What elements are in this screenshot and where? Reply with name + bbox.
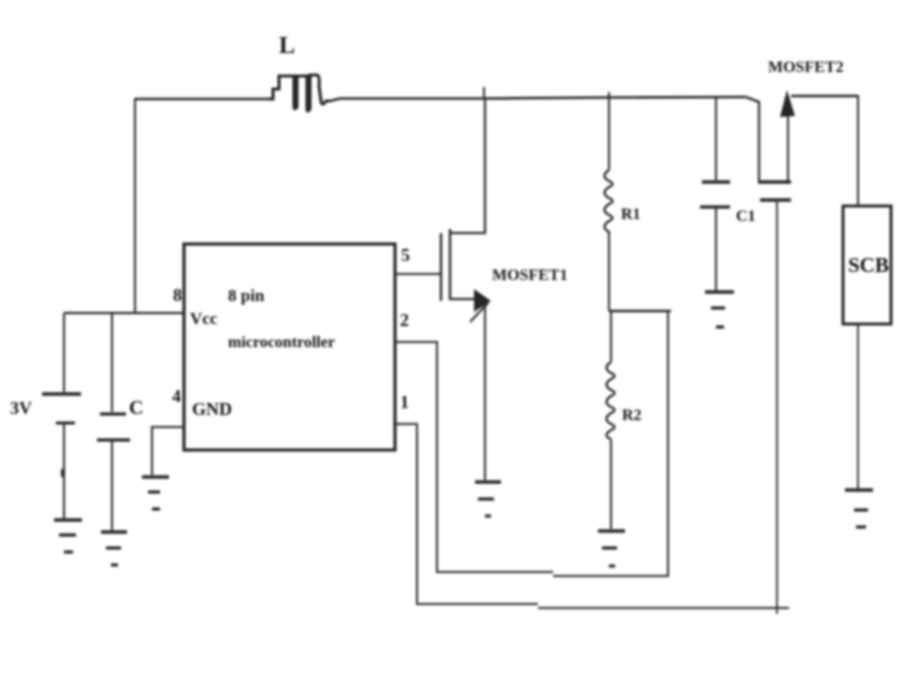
svg-text:Vcc: Vcc [190,309,218,328]
svg-text:GND: GND [192,399,232,419]
svg-text:1: 1 [400,392,409,412]
svg-text:4: 4 [172,386,181,406]
svg-text:2: 2 [400,310,409,330]
svg-text:microcontroller: microcontroller [228,334,335,351]
svg-text:R1: R1 [621,206,641,223]
svg-text:L: L [279,33,295,59]
svg-text:8 pin: 8 pin [228,286,265,305]
svg-text:MOSFET2: MOSFET2 [768,59,844,76]
svg-text:R2: R2 [622,407,642,424]
svg-text:C: C [129,397,143,419]
svg-text:MOSFET1: MOSFET1 [492,267,568,284]
svg-text:8: 8 [173,285,182,305]
svg-text:5: 5 [401,245,410,265]
svg-text:SCB: SCB [848,253,889,277]
svg-text:C1: C1 [736,208,756,225]
svg-text:3V: 3V [10,398,32,418]
